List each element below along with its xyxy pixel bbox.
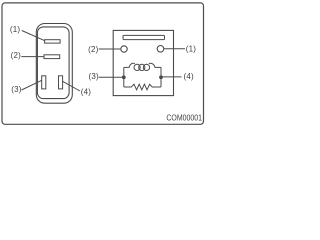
pin slot 2 (middle horizontal): [44, 55, 60, 59]
svg-text:(4): (4): [81, 87, 92, 96]
pin slot 4 (bottom-right vertical): [59, 76, 63, 89]
pin slot 1 (top horizontal): [45, 40, 61, 43]
wire coil top rail left: [124, 66, 130, 68]
leader line (3) schematic: [99, 76, 122, 78]
coil L1 loop 3: [143, 64, 149, 70]
schematic box: [113, 30, 173, 95]
coil L1 entry arc: [129, 63, 135, 67]
leader line (2) schematic: [99, 48, 121, 50]
svg-text:(3): (3): [89, 72, 100, 81]
junction node left (3): [122, 75, 126, 79]
leader line pin 3: [22, 80, 42, 90]
leader line pin 4: [63, 81, 80, 91]
terminal circle right (1): [157, 46, 164, 53]
leader line pin 1: [22, 31, 45, 41]
svg-text:(2): (2): [11, 51, 22, 60]
resistor R zigzag: [124, 84, 161, 90]
leader line (1) schematic: [164, 48, 185, 50]
connector outer housing: [36, 24, 72, 104]
wire right riser: [160, 67, 162, 87]
border frame: [2, 3, 204, 124]
coil L1 loop 1: [134, 64, 140, 70]
pin slot 3 (bottom-left vertical): [42, 76, 46, 89]
connector inner housing: [37, 27, 69, 99]
wire left riser: [123, 67, 125, 87]
junction node right (4): [159, 75, 163, 79]
coil L1 loop 2: [139, 64, 145, 70]
terminal circle left (2): [121, 46, 127, 52]
svg-text:(2): (2): [88, 45, 99, 54]
contact bar: [123, 35, 165, 39]
svg-text:(1): (1): [186, 45, 197, 54]
svg-text:(3): (3): [11, 85, 22, 94]
svg-text:(1): (1): [10, 25, 21, 34]
svg-text:(4): (4): [184, 72, 195, 81]
svg-text:COM00001: COM00001: [166, 113, 202, 122]
leader line (4) schematic: [163, 76, 182, 78]
wire coil top rail right: [155, 66, 161, 68]
coil L1 exit arc: [149, 63, 155, 67]
leader line pin 2: [21, 56, 44, 58]
